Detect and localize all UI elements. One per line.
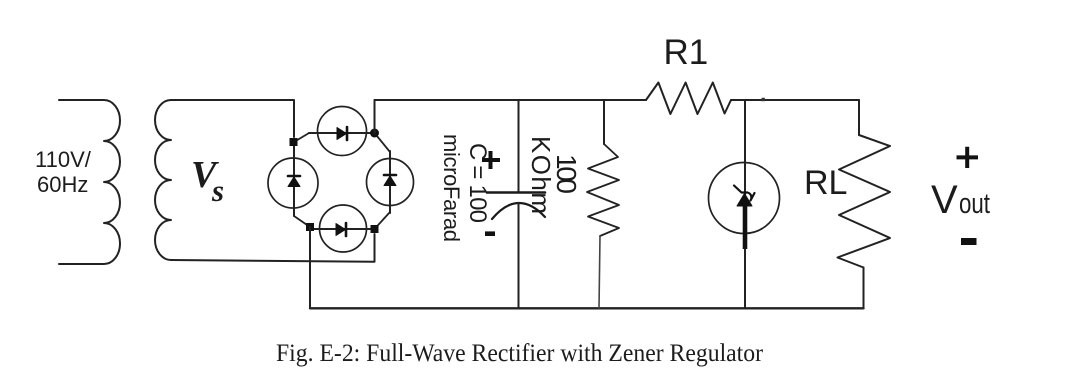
resistor RL bottom wire [863, 268, 865, 309]
resistor R1 zigzag [646, 83, 731, 115]
wire diagonal D2 to bottom-left node [294, 216, 310, 227]
resistor 100 kOhm bottom wire [599, 236, 600, 308]
svg-text:RL: RL [804, 164, 847, 202]
resistor 100 kOhm top wire [603, 100, 605, 144]
resistor RL top corner wire [858, 100, 860, 135]
zener diode D5 circle [709, 163, 780, 234]
diode D4 symbol [336, 224, 346, 236]
diode D3 circle (right) [367, 159, 414, 206]
svg-text:microFarad: microFarad [439, 134, 464, 242]
zener diode D5 thick cathode lead [743, 205, 748, 249]
zener diode D5 bent bar [734, 186, 755, 201]
wire secondary top lead to bridge [171, 100, 294, 137]
capacitor plus sign [482, 151, 500, 169]
zener diode D5 branch wire [744, 100, 746, 308]
output minus sign [961, 238, 977, 245]
wire diagonal top-right node to D3 [375, 133, 391, 152]
capacitor C1 top plate [487, 191, 545, 194]
capacitor C1 bottom wire [518, 203, 520, 308]
transformer T1 primary winding [59, 100, 120, 264]
wire artifact tick on top rail [762, 98, 765, 101]
diode D3 symbol [384, 176, 396, 186]
svg-text:Fig. E-2: Full-Wave Rectifier: Fig. E-2: Full-Wave Rectifier with Zener… [276, 338, 763, 367]
diode D4 circle (bottom) [320, 205, 367, 252]
svg-text:s: s [211, 173, 224, 208]
node bottom-left (square) [306, 223, 314, 231]
wire diagonal D3 to bottom-right node [375, 212, 391, 229]
wire secondary bottom lead to bridge [171, 234, 375, 262]
diode D1 circle (top) [318, 107, 367, 156]
svg-text:110V/: 110V/ [35, 147, 92, 172]
diode D2 circle (left) [268, 158, 318, 208]
svg-text:V: V [931, 178, 958, 222]
transformer T1 secondary winding [155, 100, 171, 260]
resistor RL zigzag [838, 135, 891, 268]
wire bottom-left node to bottom rail [309, 227, 311, 308]
svg-text:C = 100: C = 100 [464, 143, 491, 223]
node top-right (dot) [370, 129, 379, 138]
output plus sign [957, 147, 979, 168]
svg-text:60Hz: 60Hz [37, 172, 88, 197]
resistor 100 kOhm zigzag [587, 144, 619, 236]
wire diagonal top-left node to D1 [294, 133, 309, 142]
diode D1 symbol [337, 128, 347, 140]
node top-left (square) [290, 138, 298, 146]
svg-text:KOhm: KOhm [526, 136, 556, 214]
wire top rail right of R1 [731, 99, 859, 101]
node bottom-right (square) [371, 225, 379, 233]
svg-text:out: out [959, 188, 990, 220]
capacitor minus sign [485, 231, 495, 236]
zener diode D5 triangle [737, 194, 752, 207]
diode D3 wire [389, 151, 391, 213]
svg-text:R1: R1 [664, 33, 709, 72]
diode D4 wire [310, 228, 374, 230]
diode D2 symbol [288, 177, 300, 187]
capacitor C1 top wire [518, 100, 520, 192]
capacitor C1 bottom curved plate [492, 203, 545, 219]
wire bridge DC+ to top rail [374, 100, 376, 133]
diode D2 wire [293, 142, 295, 216]
wire bottom rail [310, 307, 864, 309]
diode D1 wire [309, 132, 374, 134]
wire top rail [375, 99, 647, 101]
